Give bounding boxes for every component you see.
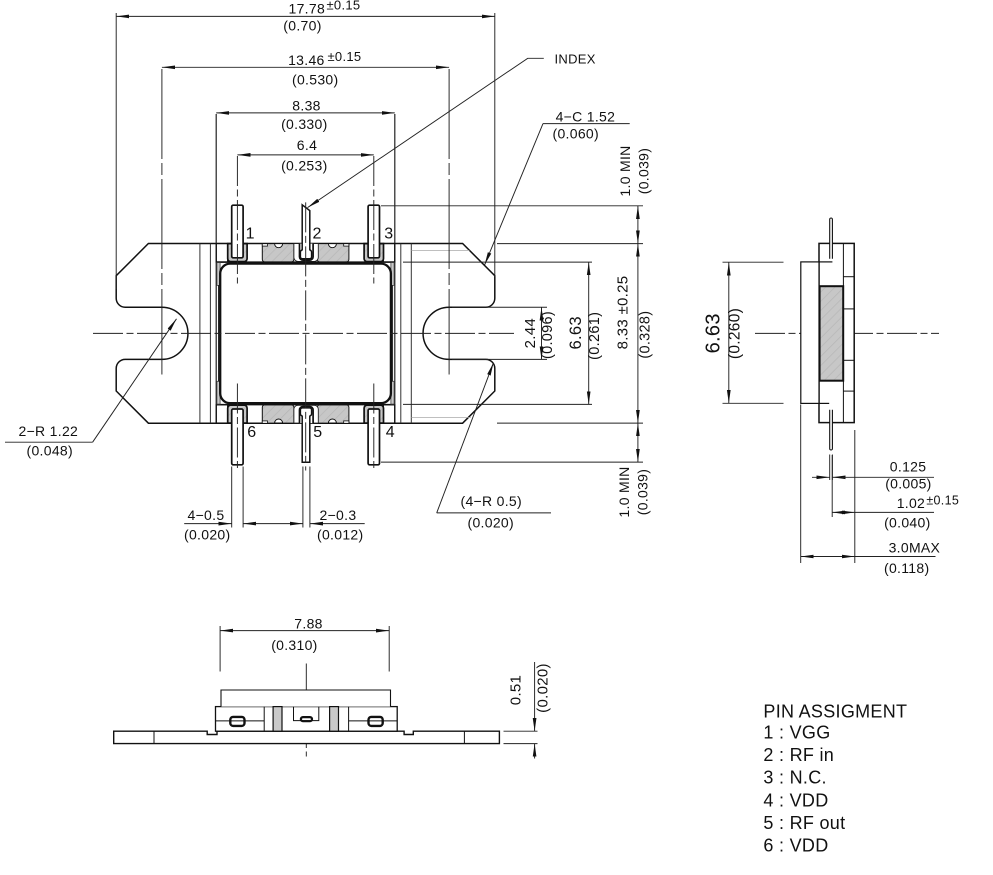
svg-text:1.02: 1.02 — [897, 495, 925, 511]
svg-text:4: 4 — [386, 424, 395, 441]
side: cap rect — [801, 262, 819, 404]
svg-text:(0.530): (0.530) — [292, 72, 338, 88]
svg-text:PIN ASSIGMENT: PIN ASSIGMENT — [763, 701, 907, 721]
lead 5 — [300, 408, 311, 462]
side: divider 4 — [843, 390, 854, 392]
castellation notch bottom left — [275, 419, 283, 423]
svg-text:(0.040): (0.040) — [884, 515, 930, 531]
faint step line bottom right — [411, 416, 471, 418]
middle arrow line between leads — [243, 523, 303, 525]
svg-text:1 : VGG: 1 : VGG — [763, 723, 830, 743]
white corner box top-left — [216, 244, 227, 262]
svg-text:(0.118): (0.118) — [884, 560, 929, 576]
dim 0.51 arrow top — [534, 662, 536, 731]
inner vertical line right B — [400, 244, 402, 424]
right slot centerline / 13.46 extension — [448, 69, 450, 375]
frame inner vertical left — [218, 285, 220, 381]
svg-text:1.0 MIN: 1.0 MIN — [617, 145, 633, 196]
svg-text:(0.020): (0.020) — [535, 663, 552, 713]
corner gray sliver top-right — [391, 263, 394, 286]
lead 1 — [232, 205, 243, 258]
bottom: left window wall — [263, 707, 265, 732]
svg-text:±0.15: ±0.15 — [328, 49, 362, 64]
svg-text:INDEX: INDEX — [555, 51, 596, 66]
inner vertical line left B — [209, 244, 211, 424]
svg-text:(0.060): (0.060) — [553, 125, 599, 141]
dim 2.44 ext top — [452, 306, 547, 308]
inner vertical line left A — [199, 244, 201, 424]
dim 13.46 line — [162, 66, 449, 68]
inner U outline around lead 2 — [300, 244, 314, 261]
corner notch gray block bottom-left — [262, 421, 267, 423]
side: top lead — [830, 218, 833, 259]
bottom: gray bar 2 — [330, 707, 339, 732]
frame edge line top — [216, 261, 394, 263]
gray pad around lead 6 — [228, 405, 247, 423]
bottom: center window — [294, 707, 319, 721]
bottom: right window line — [349, 720, 398, 722]
white window around lead 5 — [294, 405, 318, 423]
svg-text:17.78: 17.78 — [289, 1, 326, 17]
lead 1 centerline / 6.4 extension — [236, 156, 238, 284]
side dim 6.63 ext top — [723, 261, 784, 263]
lead 2 (with index slit) — [300, 205, 311, 259]
corner notch gray block top-left — [262, 244, 267, 246]
ceramic edge left / 8.38 extension — [215, 114, 217, 423]
lead 4 — [368, 409, 379, 465]
svg-text:3: 3 — [384, 225, 393, 242]
side: divider 2 — [843, 308, 854, 310]
dim 0.51 arrow bottom — [534, 744, 536, 759]
bottom: bar step line right — [463, 731, 465, 743]
bottom: right foot — [369, 717, 383, 726]
dim 6.63 line — [588, 262, 590, 404]
dim 4-0.5 arrow line — [184, 523, 232, 525]
svg-text:(0.328): (0.328) — [638, 311, 654, 359]
inner vertical line right A — [410, 244, 412, 424]
white corner box top-right — [383, 244, 394, 262]
castellation notch bottom right — [328, 419, 336, 423]
gray pad around lead 3 — [364, 244, 383, 262]
side: flange/body outer rect — [819, 243, 854, 422]
bottom view vertical centerline — [305, 664, 307, 757]
bottom: left foot — [230, 717, 244, 726]
white corner box bottom-right — [383, 405, 394, 423]
svg-text:3 : N.C.: 3 : N.C. — [763, 768, 826, 788]
dim 2-0.3 arrow line — [310, 523, 365, 525]
lead 6 centerline — [236, 384, 238, 472]
castellation notch top left — [275, 244, 283, 248]
svg-text:(0.330): (0.330) — [281, 116, 327, 132]
svg-text:1: 1 — [246, 225, 255, 242]
corner gray sliver top-left — [217, 263, 220, 286]
side: cap bottom edge extension to lead — [819, 402, 829, 404]
svg-text:(0.048): (0.048) — [27, 443, 73, 459]
svg-text:(0.70): (0.70) — [283, 17, 321, 33]
side dim 3.0MAX ext right — [854, 430, 856, 563]
svg-text:(0.012): (0.012) — [317, 527, 363, 543]
bottom ceramic band: gray block left — [262, 405, 294, 423]
gray pad around lead 4 — [364, 405, 383, 423]
white corner box bottom-left — [216, 405, 227, 423]
side dim 6.63 line — [728, 262, 730, 403]
flange outline with chamfered corners and two open mounting slots — [116, 244, 495, 424]
dim 6.63 ext top — [403, 261, 592, 263]
dim 8.38 line — [216, 112, 395, 114]
svg-text:2.44: 2.44 — [522, 318, 539, 348]
vertical centerline main view — [305, 202, 307, 470]
gray pad around lead 1 — [228, 244, 247, 262]
dim 6.4 line — [237, 154, 373, 156]
side: ceramic gray rect — [820, 286, 844, 381]
bottom: center foot — [301, 717, 312, 721]
dim 6.63 ext bottom — [403, 403, 592, 405]
svg-text:6.63: 6.63 — [702, 313, 724, 353]
dim 17.78 ext right — [494, 13, 496, 277]
svg-text:5 : RF out: 5 : RF out — [763, 813, 845, 833]
svg-text:7.88: 7.88 — [294, 615, 322, 631]
svg-text:1.0 MIN: 1.0 MIN — [616, 466, 632, 517]
bottom: right window wall — [348, 707, 350, 732]
corner gray sliver bottom-left — [217, 381, 220, 404]
dim 1.0 MIN bottom ext — [381, 461, 643, 463]
dim 7.88 ext right — [388, 626, 390, 672]
dim 17.78 line — [116, 15, 495, 17]
dim 0.51 ext bottom — [504, 743, 538, 745]
svg-text:8.38: 8.38 — [292, 97, 320, 113]
side dim 0.125 arrows — [812, 476, 830, 478]
left slot centerline / 13.46 extension — [161, 69, 163, 375]
bottom view dims — [220, 626, 537, 759]
lead 4 centerline — [373, 384, 375, 472]
side dim 1.02 line — [832, 511, 855, 513]
dim 8.33 ext top — [497, 243, 643, 245]
side: inner vertical line — [842, 243, 844, 422]
side: divider 1 — [843, 276, 854, 278]
svg-text:0.51: 0.51 — [508, 675, 525, 705]
svg-text:2−R 1.22: 2−R 1.22 — [19, 423, 79, 439]
svg-text:5: 5 — [313, 424, 322, 441]
bottom: gray bar 1 — [273, 707, 282, 732]
svg-text:3.0MAX: 3.0MAX — [889, 540, 941, 556]
svg-text:±0.15: ±0.15 — [327, 0, 361, 13]
svg-text:6 : VDD: 6 : VDD — [763, 836, 828, 856]
dim 2.44 ext bottom — [452, 358, 547, 360]
bottom: bar step line left — [153, 731, 155, 743]
dim 2-0.3 ext lines — [302, 467, 304, 528]
inner U outline around lead 5 — [300, 407, 314, 424]
svg-text:(0.005): (0.005) — [885, 476, 931, 492]
castellation notch top right — [328, 244, 336, 248]
side dim 3.0MAX line — [801, 556, 855, 558]
dim 2.44 line — [541, 307, 543, 359]
side: bottom lead — [830, 410, 833, 450]
top ceramic band: gray block left — [262, 244, 294, 262]
frame edge line bottom — [216, 404, 394, 406]
side dims — [723, 262, 936, 563]
svg-text:(0.039): (0.039) — [635, 469, 651, 515]
corner gray sliver bottom-right — [391, 381, 394, 404]
white window around lead 2 — [294, 244, 318, 262]
svg-text:(0.253): (0.253) — [281, 157, 327, 173]
dim 7.88 ext left — [219, 626, 221, 672]
frame inner vertical right — [392, 285, 394, 381]
svg-text:4−C 1.52: 4−C 1.52 — [556, 108, 616, 124]
svg-text:2: 2 — [313, 225, 322, 242]
bottom: lid — [221, 690, 391, 707]
bottom: left window line — [216, 720, 265, 722]
svg-text:(0.020): (0.020) — [184, 527, 230, 543]
cap (lid) rounded rectangle — [220, 264, 391, 404]
svg-text:(0.310): (0.310) — [271, 637, 317, 653]
bottom: frame box — [216, 707, 398, 732]
side dim 6.63 ext bottom — [723, 402, 784, 404]
svg-text:(0.261): (0.261) — [587, 312, 603, 360]
side view horizontal centerline — [755, 332, 939, 334]
dim 1.0 MIN top line — [637, 206, 639, 244]
svg-text:6: 6 — [247, 424, 256, 441]
svg-text:6.63: 6.63 — [567, 316, 585, 349]
svg-text:(0.020): (0.020) — [468, 515, 514, 531]
side: divider 3 — [843, 359, 854, 361]
dim 17.78 ext left — [115, 13, 117, 289]
svg-text:6.4: 6.4 — [297, 137, 317, 153]
svg-text:4 : VDD: 4 : VDD — [763, 790, 828, 810]
side dim 0.125 text line — [842, 476, 934, 478]
dim 1.0 MIN bottom line — [637, 423, 639, 462]
lead 3 — [368, 205, 379, 258]
dim 7.88 line — [220, 630, 389, 632]
side dim 1.02 ext line — [831, 455, 833, 517]
top ceramic band: gray block right — [317, 244, 349, 262]
dim 4-0.5 ext lines — [231, 467, 233, 528]
svg-text:(4−R 0.5): (4−R 0.5) — [461, 493, 522, 509]
svg-text:(0.260): (0.260) — [726, 308, 743, 359]
side dim 0.125 ext lines — [829, 455, 831, 481]
dim 0.51 ext top — [504, 730, 538, 732]
faint step line top right — [411, 249, 469, 251]
lead 6 — [232, 409, 243, 465]
bottom: flange bar — [114, 731, 500, 743]
svg-text:0.125: 0.125 — [890, 459, 927, 475]
lead 3 centerline / 6.4 extension — [373, 156, 375, 284]
svg-text:13.46: 13.46 — [288, 52, 325, 68]
ceramic edge right / 8.38 extension — [394, 114, 396, 423]
bottom ceramic band: gray block right — [317, 405, 349, 423]
svg-text:(0.039): (0.039) — [636, 148, 652, 194]
dim 1.0 MIN top ext — [381, 205, 643, 207]
svg-text:±0.15: ±0.15 — [926, 494, 959, 508]
dim 8.33 line — [637, 244, 639, 424]
svg-text:4−0.5: 4−0.5 — [188, 507, 225, 523]
corner notch gray block top-right — [344, 244, 349, 246]
dim 8.33 ext bottom — [497, 422, 643, 424]
svg-text:(0.096): (0.096) — [540, 311, 556, 359]
centerlines — [93, 69, 939, 757]
svg-text:2−0.3: 2−0.3 — [320, 507, 357, 523]
side: cap top edge extension to lead — [819, 261, 832, 263]
horizontal centerline main view — [93, 332, 514, 334]
svg-text:8.33 ±0.25: 8.33 ±0.25 — [615, 276, 632, 350]
corner notch gray block bottom-right — [344, 421, 349, 423]
svg-text:2 : RF in: 2 : RF in — [763, 745, 834, 765]
side dim 3.0MAX ext left — [800, 405, 802, 564]
